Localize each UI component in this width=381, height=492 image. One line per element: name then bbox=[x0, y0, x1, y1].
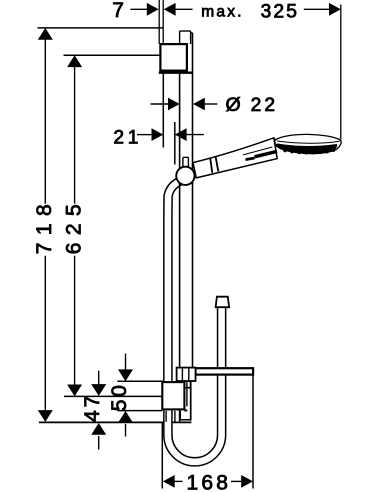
ext line 50 top bbox=[117, 380, 164, 382]
max 325 ext line to head bbox=[340, 5, 342, 140]
svg-text:Ø: Ø bbox=[226, 94, 241, 116]
square bottom edge extension bbox=[184, 410, 187, 412]
svg-text:21: 21 bbox=[113, 127, 142, 148]
svg-text:718: 718 bbox=[33, 197, 56, 255]
bracket right plate bbox=[186, 381, 188, 406]
hook block bbox=[177, 368, 196, 381]
dimension 21 bbox=[137, 128, 204, 141]
holder bar bbox=[177, 368, 254, 388]
neck rim separator bbox=[274, 138, 276, 142]
rail tube bbox=[180, 31, 193, 422]
rail right edge bbox=[192, 33, 194, 369]
dimension max 325 bbox=[304, 3, 341, 16]
dimension 625 bbox=[67, 55, 82, 396]
dimension 168 bbox=[163, 475, 253, 488]
tab bottom edge bbox=[185, 387, 191, 389]
bottom bracket bbox=[162, 381, 190, 422]
dimension text bbox=[33, 0, 299, 492]
ext line 21 right bbox=[174, 122, 176, 165]
head outline bbox=[275, 134, 341, 153]
wall line right top bbox=[162, 0, 164, 44]
ext line 625/47 bottom bbox=[64, 395, 164, 397]
svg-text:168: 168 bbox=[187, 471, 232, 492]
baseline rail end bbox=[39, 421, 192, 423]
joint lines on handle bbox=[210, 158, 212, 173]
spray nozzles bbox=[283, 149, 335, 155]
svg-text:22: 22 bbox=[251, 95, 279, 116]
dark dash lower bbox=[246, 158, 255, 160]
dimension 50 bbox=[118, 354, 133, 437]
svg-text:47: 47 bbox=[81, 393, 104, 422]
slider circle bbox=[176, 167, 194, 185]
inner line bbox=[243, 147, 272, 155]
lower step lines bbox=[165, 411, 167, 422]
slider button bbox=[183, 157, 189, 167]
dimension 7 bbox=[130, 3, 192, 16]
small tab below hook bbox=[184, 381, 190, 387]
dark band tip wedge bbox=[255, 151, 278, 156]
rail lower right edge bbox=[190, 381, 192, 421]
dark dot on neck bbox=[276, 144, 279, 147]
ext line 625 top bbox=[64, 54, 161, 56]
bracket square bbox=[162, 382, 184, 409]
svg-text:max.: max. bbox=[201, 4, 243, 21]
svg-text:325: 325 bbox=[261, 2, 300, 23]
ext line 718 top bbox=[38, 27, 164, 29]
face bottom line bbox=[277, 141, 340, 143]
top bracket bbox=[159, 44, 193, 73]
hose end nut bbox=[216, 297, 230, 308]
rail top cap bbox=[180, 30, 191, 32]
rail foot bottom bbox=[180, 419, 191, 421]
dimension 718 bbox=[38, 28, 53, 422]
dimension dia 22 bbox=[151, 98, 218, 111]
shower head bbox=[275, 134, 341, 154]
hose bbox=[168, 179, 229, 462]
ext line 50 bottom bbox=[117, 410, 162, 412]
svg-text:7: 7 bbox=[112, 0, 124, 22]
shower handle bbox=[193, 138, 277, 178]
ext line 168 left bbox=[161, 423, 163, 489]
wall line left top bbox=[158, 0, 160, 44]
svg-text:50: 50 bbox=[108, 382, 131, 411]
ext line 168 right bbox=[252, 376, 254, 489]
dimension 47 bbox=[91, 371, 106, 450]
wall line below bracket bbox=[162, 73, 164, 147]
svg-text:625: 625 bbox=[63, 197, 86, 255]
rail left edge bbox=[179, 73, 181, 421]
spray band dark bbox=[277, 143, 337, 153]
